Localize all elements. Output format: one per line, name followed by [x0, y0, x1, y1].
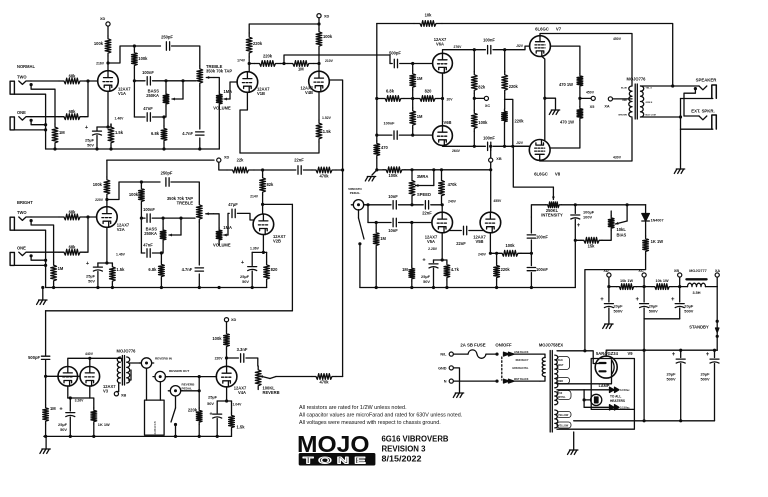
wire bass wiper — [172, 98, 183, 100]
resistor 68k input one ch1 — [59, 114, 85, 120]
svg-text:ONE: ONE — [17, 110, 26, 115]
svg-text:50V: 50V — [88, 279, 95, 284]
wire reverb plates — [68, 358, 119, 366]
wire one shorting ch2 — [31, 256, 45, 260]
jack input ONE normal — [10, 117, 14, 130]
svg-text:10nF: 10nF — [388, 228, 398, 233]
svg-text:W/YEL: W/YEL — [558, 396, 566, 399]
capacitor 100nF to V7 — [488, 46, 491, 54]
svg-text:EXT. SPKR.: EXT. SPKR. — [691, 109, 714, 114]
switch power pole2 — [495, 380, 498, 383]
fuse — [453, 353, 468, 355]
potentiometer INTENSITY 250KL — [545, 202, 561, 208]
svg-text:500V: 500V — [684, 309, 693, 314]
wire mixer to 500pF — [284, 55, 390, 64]
svg-text:3.15Vac: 3.15Vac — [620, 406, 630, 410]
resistor 82k PI — [473, 50, 475, 72]
svg-text:68k: 68k — [69, 210, 77, 215]
svg-text:100nF: 100nF — [483, 38, 495, 43]
svg-text:240V: 240V — [448, 199, 457, 203]
wire OT center tap — [613, 98, 633, 100]
svg-text:V1A: V1A — [118, 91, 126, 96]
terminal XA main — [715, 273, 719, 277]
ground speaker — [676, 168, 684, 170]
capacitor 47nF tone ch1 — [147, 113, 150, 121]
wire reverb mix row — [276, 376, 312, 378]
svg-text:4.7k: 4.7k — [451, 267, 460, 272]
wire cathodes ground — [542, 56, 545, 139]
wire jack taps ch2 — [31, 216, 59, 218]
svg-text:430V: 430V — [613, 155, 622, 159]
svg-text:174V: 174V — [237, 59, 246, 63]
wire vib channel down — [291, 204, 293, 310]
svg-text:GRN 8: GRN 8 — [646, 102, 653, 104]
svg-text:-52V: -52V — [516, 44, 524, 48]
svg-text:470 1W: 470 1W — [560, 119, 574, 124]
wire vib to reverb feed — [46, 310, 293, 312]
wire grid V1A — [85, 80, 98, 82]
svg-text:REVERB: REVERB — [263, 390, 280, 395]
svg-text:+: + — [577, 223, 581, 229]
svg-text:REVERB OUT: REVERB OUT — [169, 369, 189, 373]
svg-text:XD: XD — [224, 156, 230, 160]
svg-text:82k: 82k — [478, 85, 486, 90]
capacitor 3.3nF reverb — [241, 354, 244, 362]
svg-text:100k: 100k — [129, 192, 139, 197]
resistor 220k V5B — [496, 253, 498, 263]
svg-text:1M: 1M — [417, 76, 423, 81]
wire volume bottom ch1 — [218, 106, 220, 149]
wire V2B cathode — [262, 235, 264, 253]
svg-text:1N4007: 1N4007 — [651, 219, 664, 223]
svg-text:VOLUME: VOLUME — [213, 106, 231, 111]
ground power tubes — [551, 109, 559, 111]
capacitor 25uF bypass V2A — [97, 263, 99, 267]
terminal XC main — [642, 273, 646, 277]
wire 250pF to treble ch2 — [171, 182, 199, 202]
svg-text:220k: 220k — [188, 408, 198, 413]
svg-text:10nF: 10nF — [388, 194, 398, 199]
resistor 1M reverb grid — [43, 405, 49, 424]
wire reverb grid down — [45, 376, 47, 405]
svg-text:1M: 1M — [402, 267, 408, 272]
capacitor 100nF intensity 1 — [530, 217, 532, 233]
wire V1B grid — [236, 81, 238, 83]
wire plate node V2A — [106, 197, 108, 207]
svg-text:BIAS: BIAS — [617, 233, 627, 238]
resistor 100k plate V2A — [106, 160, 108, 177]
resistor 470k osc — [441, 170, 443, 181]
svg-text:-52V: -52V — [516, 141, 524, 145]
terminal XD supply 2 — [317, 14, 321, 18]
terminal GND mains — [449, 366, 453, 370]
wire reverb plate node — [226, 349, 228, 367]
resistor 470k reverb mix — [312, 374, 336, 380]
svg-text:22nF: 22nF — [456, 241, 466, 246]
svg-text:V5B: V5B — [476, 239, 484, 244]
wire plate node V1A — [107, 56, 109, 71]
bus wire supply ground — [574, 420, 715, 422]
wire 1.5k to row — [240, 142, 319, 153]
svg-text:3MRA: 3MRA — [417, 174, 429, 179]
switch reverb pedal — [175, 396, 177, 408]
resistor 1.5k V4A — [231, 401, 233, 413]
svg-text:100k: 100k — [94, 41, 104, 46]
resistor 6.8k ch2 — [160, 253, 162, 262]
wire screen node X5 — [579, 88, 581, 107]
switch power — [495, 353, 498, 356]
resistor 220k grid V8 — [502, 109, 508, 124]
wire 22k to 22nF — [254, 169, 296, 171]
wire V8 grid row — [513, 145, 529, 147]
svg-text:100k: 100k — [93, 182, 103, 187]
svg-text:220V: 220V — [215, 357, 224, 361]
svg-text:210V: 210V — [325, 59, 334, 63]
svg-text:350k 70k TAP: 350k 70k TAP — [206, 69, 232, 74]
tube V6B triode — [433, 126, 453, 146]
svg-text:100nF: 100nF — [483, 135, 495, 140]
svg-text:3.26V: 3.26V — [75, 399, 85, 403]
svg-text:GRN BLK/YEL: GRN BLK/YEL — [512, 367, 529, 370]
svg-text:8/15/2022: 8/15/2022 — [382, 455, 423, 464]
svg-text:REVISION 3: REVISION 3 — [382, 445, 427, 454]
svg-text:PEDAL: PEDAL — [350, 191, 361, 195]
svg-text:10kL: 10kL — [617, 227, 627, 232]
capacitor 25uF bypass V1A — [93, 131, 102, 135]
svg-text:YELLOW: YELLOW — [558, 425, 569, 428]
svg-text:ONE: ONE — [17, 245, 26, 250]
svg-text:250pF: 250pF — [161, 171, 173, 176]
svg-text:47µF: 47µF — [228, 202, 238, 207]
svg-text:N/L: N/L — [440, 353, 447, 357]
wire top NFB — [377, 23, 414, 25]
capacitor 20uF filter XD — [608, 287, 610, 302]
wire volume wiper ch1 — [224, 98, 230, 100]
resistor 470 1W screen V7 — [577, 74, 583, 88]
svg-text:V6A: V6A — [436, 42, 444, 47]
capacitor 25uF V5A — [433, 260, 435, 263]
svg-text:3.3nF: 3.3nF — [237, 347, 248, 352]
wire plate branch reverb — [227, 357, 239, 359]
ground ch2 — [42, 288, 44, 301]
wire V7 screen — [551, 46, 580, 74]
svg-text:10k: 10k — [425, 13, 433, 18]
wire V2B plate out — [263, 203, 293, 205]
svg-text:XA: XA — [604, 104, 610, 108]
resistor 100k reverb recovery — [224, 331, 230, 349]
wire V5B cathode — [489, 233, 491, 254]
svg-text:N: N — [444, 380, 447, 384]
svg-text:WHT BLACK: WHT BLACK — [514, 378, 529, 381]
svg-text:RED: RED — [622, 100, 627, 102]
heater arrow 2 — [610, 405, 620, 410]
svg-text:+: + — [600, 297, 604, 303]
potentiometer TREBLE ch2 — [196, 202, 202, 222]
wire 470k to bus — [336, 169, 343, 171]
svg-text:BLK: BLK — [558, 359, 563, 362]
wire rectifier B+ — [606, 350, 634, 356]
svg-text:50V: 50V — [242, 279, 249, 284]
svg-text:MOJO776: MOJO776 — [117, 349, 137, 354]
tube V2B triode — [253, 214, 274, 235]
wire V5A cathode — [441, 233, 443, 260]
potentiometer BASS 250KA ch2 — [160, 228, 166, 242]
wire cathode split V2B — [252, 251, 266, 253]
wire OT secondary common — [641, 116, 681, 118]
tube V8 6L6GC — [529, 140, 550, 161]
resistor 820 PI tail — [417, 96, 438, 102]
node mixer — [282, 62, 285, 65]
svg-text:REVERB IN: REVERB IN — [155, 356, 173, 360]
resistor 220k grid V7 — [504, 50, 506, 72]
wire V4A cathode — [226, 387, 228, 401]
terminal XB reverb — [114, 392, 118, 396]
svg-text:V2B: V2B — [273, 239, 281, 244]
potentiometer BIAS 10kL — [608, 216, 614, 231]
jack EXT SPKR — [699, 116, 707, 120]
bus wire ch2 ground — [46, 287, 267, 289]
arrow intensity wiper — [552, 187, 554, 199]
svg-text:100k: 100k — [478, 120, 488, 125]
box reverb tank — [145, 400, 165, 435]
wire V6B plate — [443, 145, 486, 148]
svg-text:RED BLK/Y: RED BLK/Y — [516, 359, 529, 362]
wire XB to V5B plate — [489, 158, 493, 162]
wire bass wiper ch2 — [169, 234, 181, 236]
wire intensity left — [531, 205, 545, 217]
resistor 22k — [227, 167, 254, 173]
capacitor 100nF NFB — [375, 134, 378, 137]
resistor 220k plate V1B — [246, 33, 252, 57]
wire tank output — [159, 382, 161, 400]
wire cathode V1A — [107, 91, 109, 127]
svg-text:100nF: 100nF — [142, 70, 154, 75]
wire bias tee — [504, 93, 506, 109]
wire volume wiper ch2 — [224, 234, 228, 236]
jack REVERB OUT — [155, 371, 165, 381]
svg-text:1K 1W: 1K 1W — [98, 422, 110, 427]
svg-text:SPEED: SPEED — [417, 192, 431, 197]
svg-text:XB: XB — [496, 157, 502, 161]
capacitor 25uF V2B — [248, 267, 257, 271]
capacitor 22nF vib — [298, 166, 301, 174]
wire speaker sleeve — [681, 98, 713, 100]
wire 250pF to treble pot — [172, 46, 200, 66]
tube V2A triode — [97, 207, 118, 228]
node NFB vertical — [376, 24, 378, 136]
resistor 220k coupling — [249, 63, 254, 65]
svg-text:47nF: 47nF — [143, 106, 153, 111]
wire input two to grid — [31, 80, 59, 82]
svg-text:V3: V3 — [103, 389, 109, 394]
wire ext sleeve — [681, 128, 713, 130]
capacitor 250pF — [166, 42, 169, 50]
capacitor 250pF ch2 — [166, 178, 169, 186]
svg-text:MOJO777: MOJO777 — [689, 269, 707, 273]
svg-text:BRIGHT: BRIGHT — [17, 200, 33, 205]
svg-text:XB: XB — [121, 393, 127, 397]
bus wire ch1 ground — [46, 148, 220, 150]
resistor 470 NFB — [376, 135, 378, 141]
resistor 68k two ch2 — [59, 214, 85, 220]
svg-text:6L6GC: 6L6GC — [535, 27, 549, 32]
svg-text:TWO: TWO — [17, 74, 27, 79]
capacitor 100nF to V8 — [488, 142, 491, 150]
resistor 100k tone ch2 — [140, 182, 142, 186]
potentiometer VOLUME 1MA ch1 — [216, 92, 222, 106]
svg-text:50V: 50V — [60, 427, 67, 432]
svg-text:VOLUME: VOLUME — [213, 243, 231, 248]
svg-text:450V: 450V — [586, 91, 595, 95]
svg-text:V7: V7 — [556, 27, 562, 32]
capacitor 47uF V2B grid — [232, 209, 235, 217]
tube V7 6L6GC — [530, 36, 551, 57]
ground reverb — [45, 436, 47, 449]
resistor 10k 1W dropping 2 — [652, 284, 672, 290]
resistor 470k vib — [312, 167, 336, 173]
wire pedal to caps — [364, 204, 391, 206]
wire V8 screen — [550, 120, 580, 148]
jack vibrato pedal — [353, 200, 363, 210]
wire reverb out to grid — [165, 376, 216, 378]
svg-text:TONE: TONE — [303, 456, 371, 467]
svg-text:X5: X5 — [590, 105, 595, 109]
potentiometer VOLUME 1MA ch2 — [216, 228, 222, 242]
capacitor 100nF tone ch1 — [147, 77, 150, 85]
svg-text:V4B: V4B — [305, 90, 313, 95]
svg-text:455V: 455V — [493, 199, 502, 203]
wire one sleeve ch2 — [14, 264, 45, 266]
svg-text:220k: 220k — [263, 54, 273, 59]
svg-text:100V: 100V — [583, 215, 592, 220]
svg-text:BLK COM: BLK COM — [646, 115, 656, 117]
wire one shorting — [31, 120, 45, 124]
svg-text:TREBLE: TREBLE — [177, 201, 194, 206]
wire B+ rail — [634, 349, 717, 351]
svg-text:25µF: 25µF — [208, 394, 218, 399]
svg-text:276V: 276V — [454, 45, 463, 49]
potentiometer REVERB 100KL — [255, 366, 261, 390]
svg-text:RED: RED — [558, 380, 563, 383]
inductor choke 3.5H — [680, 286, 688, 288]
wire vibrato pedal switch — [358, 210, 360, 218]
wire tone caps ch2 — [141, 217, 145, 219]
wire bias to PT — [585, 254, 646, 351]
label PT leads — [557, 357, 570, 370]
svg-text:240V: 240V — [478, 252, 487, 256]
svg-text:1M: 1M — [58, 266, 64, 271]
resistor 6.8k tone ch1 — [163, 117, 165, 126]
svg-text:100nF: 100nF — [143, 207, 155, 212]
capacitor 47nF ch2 — [147, 249, 150, 257]
svg-text:6.8k: 6.8k — [386, 89, 395, 94]
svg-text:100nF: 100nF — [384, 122, 396, 126]
wire 47nF links ch2 — [141, 252, 144, 254]
svg-text:All voltages were measured wit: All voltages were measured with respect … — [299, 420, 441, 426]
wire V8 plate — [540, 118, 632, 161]
svg-text:500V: 500V — [614, 309, 623, 314]
svg-text:470k: 470k — [448, 182, 458, 187]
wire supply rail ch2 — [107, 159, 214, 161]
svg-text:BROWN: BROWN — [618, 115, 627, 117]
wire bias feed to intensity — [513, 146, 554, 187]
resistor 1M grid ch2 — [51, 262, 57, 284]
svg-text:1M: 1M — [59, 130, 65, 135]
wire heater feed — [557, 389, 584, 391]
svg-text:22nF: 22nF — [422, 210, 432, 215]
capacitor 10nF osc2 — [368, 222, 391, 224]
capacitor 100nF tone ch2 — [147, 214, 150, 222]
wire 47nF links — [134, 116, 145, 118]
node treble row — [133, 44, 136, 47]
terminal XD supply 3 — [217, 158, 221, 162]
svg-text:47nF: 47nF — [143, 243, 153, 248]
svg-text:YEL 4: YEL 4 — [646, 87, 653, 90]
resistor 100k tone ch1 — [133, 46, 135, 50]
svg-text:820: 820 — [271, 267, 279, 272]
wire volume bottom ch2 — [218, 242, 220, 245]
wire V1B cathode — [240, 92, 247, 153]
svg-text:V8: V8 — [555, 171, 561, 176]
wire tank input — [146, 368, 148, 400]
wire V6 cathodes — [442, 73, 444, 125]
wire reverb cathodes — [67, 386, 69, 398]
svg-text:220k: 220k — [514, 119, 524, 124]
tube V9 rectifier 5AR4 — [595, 356, 617, 378]
wire heater return — [557, 409, 634, 429]
svg-text:+: + — [672, 352, 676, 358]
terminal XD main — [607, 273, 611, 277]
svg-text:MOJO758EX: MOJO758EX — [539, 342, 564, 347]
capacitor 20uF main 2 — [714, 350, 716, 357]
wire two shorting ch2 — [31, 221, 53, 262]
svg-text:500V: 500V — [700, 377, 709, 382]
resistor 1K 1W reverb — [90, 398, 94, 408]
svg-text:3.5H: 3.5H — [692, 291, 700, 295]
svg-text:XD: XD — [231, 318, 237, 322]
svg-text:V4A: V4A — [238, 390, 246, 395]
wire V1B plate node — [248, 57, 250, 72]
ground PT — [570, 449, 578, 451]
resistor 1K 1W bias — [645, 221, 647, 236]
jack REVERB PEDAL — [170, 386, 180, 396]
tube V1A triode — [98, 71, 119, 92]
svg-text:SPEAKER: SPEAKER — [696, 78, 718, 83]
svg-text:INTENSITY: INTENSITY — [541, 212, 563, 217]
capacitor 25uF V4A — [216, 401, 218, 413]
svg-text:1M: 1M — [50, 406, 56, 411]
box heater circuit — [591, 359, 634, 410]
svg-text:250pF: 250pF — [161, 35, 173, 40]
svg-text:100k: 100k — [323, 34, 333, 39]
node treble row ch2 — [140, 180, 143, 183]
svg-text:WHT: WHT — [558, 364, 564, 367]
wire filter join — [644, 318, 680, 320]
svg-text:5AR4/GZ34: 5AR4/GZ34 — [596, 351, 619, 356]
svg-text:100k: 100k — [212, 336, 222, 341]
resistor 68k input two ch1 — [59, 78, 85, 84]
wire cathode V2A — [106, 227, 108, 263]
svg-text:470 1W: 470 1W — [559, 82, 573, 87]
ground mains — [455, 392, 463, 394]
svg-text:20V: 20V — [447, 97, 454, 101]
bus wire oscillator ground — [360, 287, 575, 289]
capacitor 22nF osc — [425, 201, 428, 209]
wire reverb pot wiper — [260, 376, 270, 379]
svg-text:+: + — [635, 297, 639, 303]
terminal XD supply (preamp ch1) — [106, 22, 110, 26]
wire reverb secondary bottom — [129, 370, 132, 380]
